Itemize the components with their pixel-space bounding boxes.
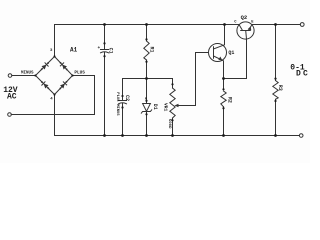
pin dot R1 top (145, 38, 147, 40)
wire terminal to bridge left corner (12, 75, 36, 77)
transistor Q1 circle (209, 44, 227, 62)
junction C1 bottom (103, 134, 106, 137)
pin dot R2 bottom (222, 107, 224, 109)
wire bridge top corner to top rail (54, 25, 56, 57)
junction VR1 bottom (171, 134, 174, 137)
svg-text:R2: R2 (227, 97, 233, 103)
transistor Q1 base bar (213, 47, 215, 58)
pin dot VR1 top (171, 83, 173, 85)
pin dot D1 cathode (145, 113, 147, 115)
potentiometer VR1 wires (172, 79, 174, 89)
svg-text:C1: C1 (108, 48, 114, 54)
wire vertical x94 up to bridge right corner (73, 76, 95, 115)
transistor Q2 base lead down (245, 31, 248, 40)
diode bridge bottom-right (58, 80, 69, 91)
wire terminal2 to corner x94 (11, 114, 94, 116)
svg-text:+: + (98, 46, 101, 51)
pin dot R3 top (274, 78, 276, 80)
pin dot D1 anode (145, 100, 147, 102)
zener diode D1 wires (146, 79, 148, 104)
pin dot R2 top (222, 88, 224, 90)
resistor R3 zigzag (273, 81, 278, 100)
svg-text:500Ω: 500Ω (167, 119, 171, 129)
transistor Q2 emitter lead right with arrow (249, 25, 253, 31)
capacitor C2 wires (122, 79, 124, 101)
transistor Q2 circle (237, 22, 254, 39)
terminal DC output plus (300, 23, 304, 27)
junction R2 bottom (222, 134, 225, 137)
wire wiper to Q1 base (196, 53, 209, 106)
svg-text:R1: R1 (148, 47, 154, 53)
svg-text:Q2: Q2 (241, 14, 248, 21)
svg-text:Q1: Q1 (228, 50, 234, 56)
svg-text:PLUS: PLUS (115, 92, 119, 102)
pin dot C2 top (121, 95, 123, 97)
resistor R3 bottom wire (275, 99, 277, 135)
resistor R1 zigzag (144, 41, 149, 60)
terminal DC output minus (299, 134, 303, 138)
capacitor C1 wires (104, 25, 106, 50)
junction C2 bottom (121, 134, 124, 137)
svg-text:PLUS: PLUS (74, 70, 85, 75)
pin dot bridge right corner (71, 74, 73, 76)
svg-text:C2: C2 (124, 95, 130, 101)
svg-text:VR1: VR1 (163, 103, 169, 112)
terminal AC input top (8, 74, 12, 78)
pin dot C1 top (103, 42, 105, 44)
svg-text:DC: DC (296, 70, 310, 79)
junction Q1 collector top (223, 23, 226, 26)
zener diode D1 symbol (143, 104, 151, 112)
capacitor C1 plates (101, 49, 109, 51)
wire top rail left of Q2 (55, 24, 240, 26)
junction R3 bottom (274, 134, 277, 137)
resistor R2 zigzag (221, 91, 226, 107)
wire reference node rail (123, 78, 173, 80)
pin dot C2 bottom (121, 106, 123, 108)
junction R3 top (274, 23, 277, 26)
potentiometer VR1 wiper arrow (178, 105, 196, 107)
transistor Q2 collector lead left (239, 25, 243, 31)
wire bottom rail (55, 135, 300, 137)
svg-text:MINUS: MINUS (21, 72, 34, 76)
pin dot bridge top corner (53, 55, 55, 57)
svg-text:AC: AC (7, 92, 17, 101)
diode bridge top-right (58, 61, 69, 72)
junction C1 top (103, 23, 106, 26)
svg-text:D1: D1 (152, 104, 158, 110)
junction reference node (145, 77, 148, 80)
resistor R1 wires (146, 25, 148, 42)
transistor Q1 emitter with arrow (214, 56, 224, 89)
svg-text:MINUS: MINUS (115, 104, 119, 116)
junction R1 top (145, 23, 148, 26)
resistor R2 bottom wire (223, 107, 225, 136)
resistor R3 top wire (275, 25, 277, 81)
pin dot C1 bottom (103, 55, 105, 57)
bridge rectifier A1 diamond (36, 57, 73, 95)
pin dot bridge bottom corner (53, 93, 55, 95)
wire bridge bottom corner to bottom rail (54, 95, 56, 136)
wire Q1 emitter node to Q2 base (224, 39, 247, 79)
junction D1 bottom (145, 134, 148, 137)
terminal AC input bottom (8, 113, 12, 117)
transistor Q1 collector (214, 25, 225, 50)
diode bridge bottom-left (40, 80, 51, 91)
junction Q1 emitter node (222, 77, 225, 80)
transistor Q2 base bar horizontal (241, 30, 251, 32)
pin dot R3 bottom (274, 100, 276, 102)
wire top rail right of Q2 (252, 24, 300, 26)
diode bridge top-left (39, 61, 50, 72)
potentiometer VR1 zigzag (170, 88, 175, 118)
pin dot bridge left corner (34, 74, 36, 76)
capacitor C2 plates (119, 100, 127, 102)
pin dot VR1 bottom (171, 119, 173, 121)
svg-text:A1: A1 (70, 47, 78, 54)
svg-text:R3: R3 (277, 85, 283, 91)
pin dot R1 bottom (145, 61, 147, 63)
